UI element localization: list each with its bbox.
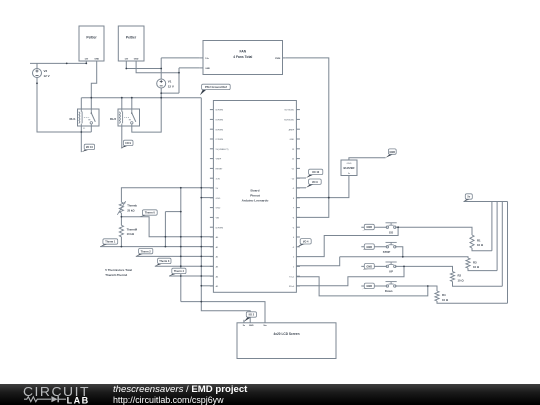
svg-text:GND: GND: [366, 264, 372, 268]
svg-text:Therm 3: Therm 3: [159, 259, 170, 263]
wire 5v rail 1: [491, 202, 493, 251]
pushbutton UP: [386, 262, 397, 274]
junction: [121, 97, 123, 99]
svg-text:I/O 2: I/O 2: [249, 313, 255, 317]
wire branch stub v: [164, 212, 166, 247]
wire Down row to R4: [395, 286, 437, 291]
svg-text:TX=1: TX=1: [289, 276, 295, 278]
svg-text:RX=0: RX=0: [289, 286, 295, 288]
wire Peltier1 GND down: [91, 61, 96, 98]
wire GO row left: [361, 226, 387, 228]
junction: [200, 285, 202, 287]
wire 5v rail 2: [496, 202, 498, 271]
svg-text:V1: V1: [168, 80, 172, 84]
svg-text:R3: R3: [473, 260, 477, 264]
wire R1 bottom: [472, 248, 492, 251]
svg-text:R4: R4: [442, 293, 446, 297]
svg-text:12V: 12V: [124, 59, 128, 61]
svg-text:RL/2: RL/2: [110, 117, 117, 121]
wire V1+ vertical: [160, 58, 162, 79]
junction: [180, 211, 182, 213]
wire board pin to I/O9 flag: [296, 187, 306, 189]
resistor ThermM 10k: [119, 225, 138, 237]
svg-text:3.3V: 3.3V: [216, 178, 221, 180]
svg-text:12 V: 12 V: [44, 74, 50, 78]
wire node to A0: [121, 217, 213, 237]
pushbutton Down: [385, 282, 397, 294]
wire GO to board pin ~3: [296, 227, 398, 256]
svg-text:Peltier: Peltier: [86, 35, 97, 39]
net flag GND (Down): [361, 283, 374, 289]
pushbutton STOP: [383, 242, 397, 254]
svg-text:GND: GND: [366, 245, 372, 249]
svg-text:I/O 10: I/O 10: [86, 145, 94, 149]
footer bar: [0, 384, 540, 405]
svg-text:5V(USB/EXT): 5V(USB/EXT): [216, 149, 229, 151]
svg-text:VREF: VREF: [216, 159, 222, 161]
svg-text:LAB: LAB: [67, 395, 90, 405]
junction: [200, 256, 202, 258]
note: thermistor count: [105, 268, 132, 277]
wire relay2 common stub: [131, 98, 133, 109]
junction: [90, 97, 92, 99]
svg-text:GND: GND: [290, 139, 295, 141]
junction: [121, 246, 123, 248]
svg-text:GND: GND: [216, 208, 221, 210]
net flag I/O 10 (relay1): [81, 144, 94, 152]
wire 5V branch vertical: [180, 188, 182, 302]
svg-text:GND: GND: [249, 325, 254, 327]
svg-text:I4/PWM: I4/PWM: [216, 110, 224, 112]
wire STOP row left: [361, 246, 387, 248]
svg-text:R2: R2: [458, 274, 462, 278]
wire R2 bottom: [453, 282, 503, 287]
wire STOP down jog: [395, 247, 403, 257]
wire PSU ground rail: [201, 98, 250, 323]
wire FAN GND to V1-: [161, 92, 179, 94]
resistor R3: [466, 258, 480, 269]
resistor R2: [450, 272, 464, 283]
junction: [178, 72, 180, 74]
wire UP to board RX pin: [296, 266, 404, 285]
junction: [328, 197, 330, 199]
net flag GND (buzzer): [386, 149, 397, 158]
svg-text:GND: GND: [94, 59, 99, 61]
relay RL/2: [110, 109, 140, 126]
wire R4 bottom: [437, 301, 508, 303]
svg-text:12V: 12V: [84, 59, 88, 61]
relay RL/1: [69, 109, 99, 126]
wire board pin to I/O10 flag: [296, 177, 306, 179]
svg-text:B1: B1: [83, 128, 86, 130]
voltage source V1: [157, 79, 174, 89]
junction: [180, 256, 182, 258]
junction: [180, 265, 182, 267]
junction: [200, 197, 202, 199]
voltage source V2: [33, 69, 50, 79]
net flag 5v: [464, 194, 473, 202]
junction: [200, 275, 202, 277]
svg-text:10 Ω: 10 Ω: [477, 243, 484, 247]
LCD screen box: [237, 320, 336, 359]
junction: [427, 285, 429, 287]
wire R3 bottom: [468, 268, 497, 271]
CircuitLab logo: [20, 384, 120, 405]
thermistor Thermb 25k: [117, 201, 137, 215]
svg-text:GND: GND: [366, 284, 372, 288]
junction: [200, 236, 202, 238]
wire V2 top stub: [36, 63, 38, 68]
svg-text:10 Ω: 10 Ω: [458, 278, 465, 282]
svg-text:GND: GND: [389, 150, 395, 154]
svg-text:Therm 4: Therm 4: [174, 269, 185, 273]
wire 5v rail 4: [507, 202, 509, 304]
buzzer: [341, 160, 357, 176]
svg-text:S5/TXLED: S5/TXLED: [284, 110, 294, 112]
net flag Therm 1: [100, 239, 118, 247]
wire STOP net to R3: [340, 257, 468, 258]
svg-text:GND: GND: [134, 59, 139, 61]
wire A4 Therm4: [169, 275, 213, 277]
svg-text:12 V: 12 V: [168, 85, 174, 89]
svg-text:PSU Ground Ref: PSU Ground Ref: [205, 85, 227, 89]
svg-text:Down: Down: [385, 289, 393, 293]
wire GO row to R1: [395, 227, 472, 235]
net flag I/O 2 (LCD): [244, 312, 257, 322]
junction: [80, 131, 82, 133]
svg-text:Therm 2: Therm 2: [141, 249, 152, 253]
svg-text:Arduino Leonardo: Arduino Leonardo: [242, 199, 269, 203]
junction: [200, 265, 202, 267]
wire thermistor node: [120, 213, 122, 225]
svg-text:VIN: VIN: [216, 218, 220, 220]
svg-text:RL/1: RL/1: [69, 117, 76, 121]
wire 12V rail to FAN: [161, 57, 200, 59]
svg-text:10 Ω: 10 Ω: [473, 265, 480, 269]
svg-text:I4/PWM: I4/PWM: [216, 227, 224, 229]
wire buzzer top to GND flag: [349, 158, 386, 160]
junction: [66, 63, 68, 65]
svg-text:V2: V2: [44, 69, 48, 73]
junction: [125, 68, 127, 70]
junction: [36, 82, 38, 84]
net flag Therm 3: [155, 258, 171, 266]
net flag I/O 9 (relay2): [121, 140, 133, 148]
svg-text:Therm0-Therm4: Therm0-Therm4: [105, 273, 127, 277]
pushbutton GO: [386, 223, 397, 235]
junction: [85, 63, 87, 65]
svg-text:I7/PWM: I7/PWM: [216, 139, 224, 141]
svg-text:I6/PWM: I6/PWM: [216, 129, 224, 131]
junction: [131, 97, 133, 99]
svg-text:4 Fans Total: 4 Fans Total: [233, 55, 252, 59]
svg-text:10 kΩ: 10 kΩ: [127, 232, 135, 236]
svg-text:Peltier: Peltier: [126, 35, 137, 39]
wire UP row left: [361, 265, 387, 267]
svg-text:PWM: PWM: [275, 58, 280, 60]
wire 5V to thermistor: [121, 188, 213, 202]
svg-text:GO: GO: [389, 230, 394, 234]
wire V1- to relay2 NO: [132, 88, 161, 132]
svg-text:I/O 10: I/O 10: [312, 170, 320, 174]
svg-text:I/O 4: I/O 4: [303, 240, 309, 244]
wire board pin8 to buzzer: [296, 176, 349, 198]
svg-text:Thermb: Thermb: [127, 204, 137, 208]
net flag I/O 10 (board): [306, 169, 323, 178]
svg-text:I/O 9: I/O 9: [312, 180, 318, 184]
junction: [121, 216, 123, 218]
svg-text:GND: GND: [205, 68, 210, 70]
svg-text:I/O 9: I/O 9: [125, 141, 131, 145]
svg-text:STOP: STOP: [383, 250, 391, 254]
junction: [160, 68, 162, 70]
wire Peltier2 GND: [136, 61, 179, 73]
svg-text:5 Thermistors Total: 5 Thermistors Total: [105, 268, 132, 272]
svg-text:AREF: AREF: [289, 128, 295, 131]
junction: [200, 301, 202, 303]
Peltier module 1: [79, 26, 104, 61]
svg-text:I5/PWM: I5/PWM: [216, 120, 224, 122]
wire A5 to rail: [201, 285, 213, 287]
junction: [200, 187, 202, 189]
wire relay1 coil- to flag: [80, 126, 82, 152]
svg-text:Pinout: Pinout: [250, 194, 260, 198]
wire branch stub h: [165, 211, 180, 213]
junction: [165, 236, 167, 238]
wire Peltier1 12V stub: [85, 61, 87, 63]
wire 5v rail 3: [501, 202, 503, 287]
svg-text:GND: GND: [216, 198, 221, 200]
junction: [180, 187, 182, 189]
wire board pin 2 jog: [296, 257, 339, 266]
junction: [160, 97, 162, 99]
junction: [200, 246, 202, 248]
wire FAN GND vertical: [178, 68, 180, 93]
junction: [403, 266, 405, 268]
wire rail to board GND: [201, 197, 213, 199]
wire relay1 NO stub: [90, 126, 92, 132]
svg-text:ThermM: ThermM: [127, 227, 138, 231]
net flag Therm 2: [136, 248, 153, 256]
junction: [180, 275, 182, 277]
resistor R1: [470, 235, 484, 248]
svg-text:Board: Board: [251, 188, 260, 192]
svg-text:GND: GND: [366, 225, 372, 229]
Peltier module 2: [118, 26, 144, 61]
wire to LCD Sio: [181, 302, 265, 323]
wire relay1 common stub: [90, 98, 92, 109]
wire FAN GND: [179, 67, 200, 69]
svg-text:R1: R1: [477, 238, 481, 242]
net flag GND (GO): [361, 224, 374, 230]
board U1 Arduino Leonardo pinout: [210, 101, 300, 293]
net flag GND (STOP): [361, 244, 374, 250]
net flag GND (UP): [361, 264, 374, 270]
resistor R4: [435, 291, 449, 302]
svg-text:FAN: FAN: [240, 49, 247, 53]
svg-text:BUZZER: BUZZER: [344, 166, 355, 170]
svg-text:4x20 LCD Screen: 4x20 LCD Screen: [273, 332, 299, 336]
wire Peltier2 12V to V1+: [126, 61, 161, 69]
net flag I/O 4 (board): [297, 239, 311, 247]
wire relay2 coil- to flag: [121, 126, 123, 148]
svg-text:S5/RXLED: S5/RXLED: [284, 120, 295, 122]
svg-text:Therm 1: Therm 1: [105, 240, 116, 244]
svg-text:RESET: RESET: [216, 169, 224, 171]
wire board TX to Down row: [296, 277, 427, 296]
wire V2- down to relay1: [37, 78, 91, 133]
junction: [180, 246, 182, 248]
wire A1 Therm1: [100, 246, 213, 248]
wire FAN PWM down to board pin: [286, 58, 329, 218]
svg-text:25 kΩ: 25 kΩ: [127, 208, 135, 212]
wire Down row left: [361, 285, 387, 287]
wire 5v bus top: [464, 201, 508, 203]
FAN box: [200, 41, 286, 75]
junction: [160, 92, 162, 94]
wire A3 Therm3: [155, 265, 214, 267]
wire ground bus A: [81, 97, 201, 99]
wire relay2 coil+ stub: [121, 98, 123, 109]
net flag Therm 0: [140, 210, 158, 217]
wire A2 Therm2: [136, 255, 214, 257]
junction: [402, 256, 404, 258]
net flag I/O 9 (board): [306, 179, 321, 188]
net flag PSU Ground Ref: [200, 84, 230, 95]
svg-text:GND: GND: [347, 163, 352, 165]
junction: [397, 226, 399, 228]
wire UP row to R2: [395, 266, 453, 271]
svg-text:UP: UP: [389, 270, 393, 274]
svg-text:Therm 0: Therm 0: [145, 211, 156, 215]
wire relay1 coil+ stub: [80, 98, 82, 109]
wire ThermM bottom: [120, 237, 122, 247]
junction: [328, 197, 330, 199]
net flag Therm 4: [169, 268, 186, 276]
junction: [180, 236, 182, 238]
wire V2+ to Peltier1 12V: [30, 62, 86, 64]
svg-text:10 Ω: 10 Ω: [442, 298, 449, 302]
junction: [165, 246, 167, 248]
